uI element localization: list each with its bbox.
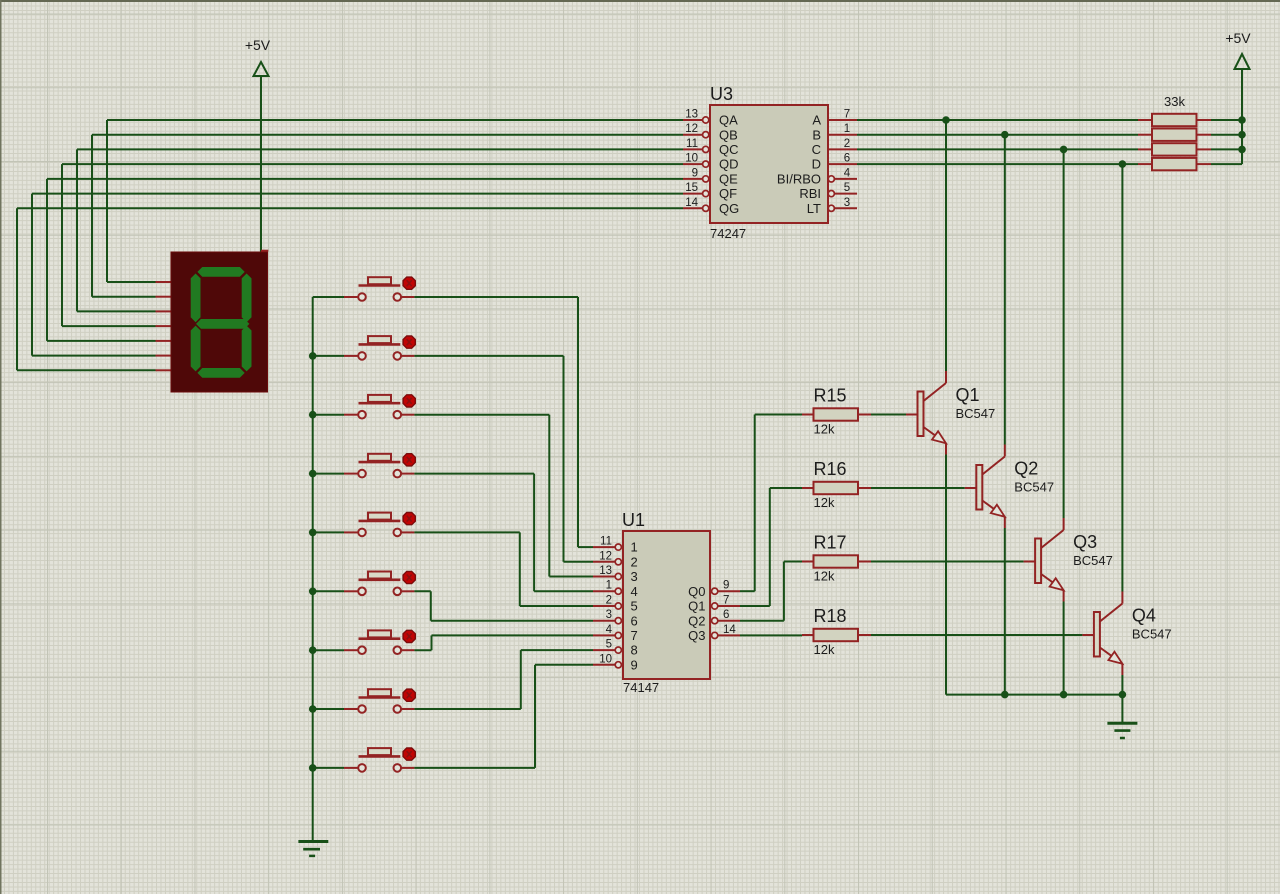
- svg-text:10: 10: [685, 153, 698, 165]
- svg-text:QC: QC: [719, 142, 739, 157]
- svg-text:R16: R16: [814, 459, 847, 479]
- svg-text:1: 1: [606, 580, 612, 592]
- svg-text:U3: U3: [710, 84, 733, 104]
- svg-text:9: 9: [723, 580, 729, 592]
- svg-text:QA: QA: [719, 113, 738, 128]
- svg-text:Q3: Q3: [1073, 532, 1097, 552]
- svg-text:7: 7: [631, 628, 638, 643]
- svg-text:15: 15: [685, 182, 698, 194]
- svg-text:Q0: Q0: [688, 584, 705, 599]
- svg-text:5: 5: [631, 599, 638, 614]
- svg-text:BC547: BC547: [1014, 480, 1054, 495]
- svg-text:QF: QF: [719, 186, 737, 201]
- svg-text:+5V: +5V: [1225, 30, 1251, 46]
- svg-text:2: 2: [606, 595, 612, 607]
- svg-text:B: B: [812, 127, 821, 142]
- svg-text:4: 4: [844, 167, 851, 179]
- svg-text:11: 11: [600, 536, 612, 548]
- svg-text:+5V: +5V: [245, 37, 271, 53]
- svg-text:11: 11: [686, 138, 698, 150]
- svg-text:BC547: BC547: [1073, 553, 1113, 568]
- svg-text:12: 12: [685, 123, 698, 135]
- svg-text:9: 9: [631, 657, 638, 672]
- svg-text:2: 2: [631, 554, 638, 569]
- svg-text:6: 6: [631, 613, 638, 628]
- svg-text:10: 10: [599, 653, 612, 665]
- svg-text:QB: QB: [719, 127, 738, 142]
- svg-text:8: 8: [631, 643, 638, 658]
- svg-text:4: 4: [606, 624, 613, 636]
- svg-text:12k: 12k: [814, 642, 835, 657]
- svg-text:Q1: Q1: [688, 599, 705, 614]
- svg-text:QE: QE: [719, 172, 738, 187]
- svg-text:12k: 12k: [814, 569, 835, 584]
- svg-text:5: 5: [844, 182, 850, 194]
- svg-text:14: 14: [723, 624, 736, 636]
- svg-text:Q2: Q2: [1014, 459, 1038, 479]
- svg-text:6: 6: [844, 153, 850, 165]
- svg-text:R18: R18: [814, 606, 847, 626]
- svg-text:33k: 33k: [1164, 94, 1185, 109]
- svg-text:LT: LT: [807, 201, 821, 216]
- svg-text:QD: QD: [719, 157, 739, 172]
- svg-text:3: 3: [631, 569, 638, 584]
- svg-text:3: 3: [606, 609, 612, 621]
- svg-text:1: 1: [631, 540, 638, 555]
- svg-text:1: 1: [844, 123, 850, 135]
- svg-text:12k: 12k: [814, 422, 835, 437]
- svg-text:RBI: RBI: [799, 186, 821, 201]
- svg-text:BC547: BC547: [956, 406, 996, 421]
- svg-text:C: C: [812, 142, 821, 157]
- svg-text:74147: 74147: [623, 680, 659, 695]
- svg-text:Q3: Q3: [688, 628, 705, 643]
- svg-text:7: 7: [723, 595, 729, 607]
- svg-text:R17: R17: [814, 533, 847, 553]
- svg-text:74247: 74247: [710, 226, 746, 241]
- svg-text:R15: R15: [814, 386, 847, 406]
- svg-text:9: 9: [692, 167, 698, 179]
- svg-text:Q4: Q4: [1132, 606, 1156, 626]
- svg-text:Q2: Q2: [688, 613, 705, 628]
- svg-text:13: 13: [599, 565, 612, 577]
- svg-text:3: 3: [844, 197, 850, 209]
- svg-text:5: 5: [606, 639, 612, 651]
- svg-text:BC547: BC547: [1132, 627, 1172, 642]
- svg-text:6: 6: [723, 609, 729, 621]
- svg-text:14: 14: [685, 197, 698, 209]
- svg-text:BI/RBO: BI/RBO: [777, 172, 821, 187]
- svg-text:4: 4: [631, 584, 638, 599]
- svg-text:D: D: [812, 157, 821, 172]
- svg-text:Q1: Q1: [956, 385, 980, 405]
- svg-text:QG: QG: [719, 201, 739, 216]
- svg-text:7: 7: [844, 109, 850, 121]
- svg-text:13: 13: [685, 109, 698, 121]
- svg-text:A: A: [812, 113, 821, 128]
- svg-text:U1: U1: [622, 510, 645, 530]
- svg-text:12: 12: [599, 550, 612, 562]
- svg-text:2: 2: [844, 138, 850, 150]
- svg-text:12k: 12k: [814, 495, 835, 510]
